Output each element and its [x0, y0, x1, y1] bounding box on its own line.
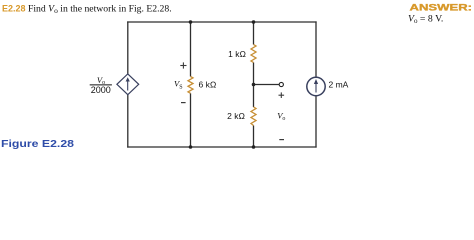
wire branch 2k lower [253, 126, 255, 148]
resistor 2k zigzag [251, 107, 256, 126]
label Vo output [277, 110, 285, 122]
fraction bar [90, 84, 112, 86]
plus VS [180, 62, 186, 68]
title text E2.28 [2, 3, 172, 15]
resistor 1k zigzag [251, 45, 256, 63]
minus Vo [279, 139, 284, 141]
wire branch 1k upper [253, 22, 255, 45]
svg-text:ANSWER:: ANSWER: [410, 2, 473, 12]
svg-text:Vo = 8 V.: Vo = 8 V. [408, 13, 443, 25]
wire top [127, 21, 316, 23]
svg-text:2 kΩ: 2 kΩ [227, 111, 245, 121]
svg-text:VS: VS [174, 79, 183, 91]
node top 6k branch [189, 20, 193, 24]
svg-text:1 kΩ: 1 kΩ [228, 49, 246, 59]
wire stub to terminal [254, 84, 280, 86]
label 6 kOhm [199, 80, 217, 90]
wire branch 6k upper [190, 22, 192, 77]
dependent source diamond [117, 74, 139, 95]
wire branch middle [253, 63, 255, 108]
svg-text:6 kΩ: 6 kΩ [199, 80, 217, 90]
wire left lower [127, 94, 129, 147]
label 2 mA [329, 80, 349, 90]
node bottom 2k branch [252, 145, 256, 149]
control label 2000 denominator [91, 85, 111, 95]
svg-text:2 mA: 2 mA [329, 80, 349, 90]
wire right upper [315, 21, 317, 77]
wire bottom [127, 146, 316, 148]
svg-text:Figure E2.28: Figure E2.28 [1, 138, 74, 150]
node bottom 6k branch [189, 145, 193, 149]
control label Vo/2000 numerator [97, 75, 105, 86]
node top 1k branch [252, 20, 256, 24]
svg-text:E2.28 Find Vo in the network i: E2.28 Find Vo in the network in Fig. E2.… [2, 3, 172, 15]
minus VS [181, 102, 186, 104]
terminal open circle [279, 82, 283, 86]
resistor 6k zigzag [188, 77, 193, 94]
svg-text:2000: 2000 [91, 85, 111, 95]
figure caption Figure E2.28 [1, 138, 74, 150]
wire branch 6k lower [190, 93, 192, 147]
svg-text:Vo: Vo [277, 110, 285, 122]
plus Vo [279, 92, 285, 98]
label 1 kOhm [228, 49, 246, 59]
answer heading [410, 2, 473, 12]
node mid junction [252, 83, 256, 87]
wire left upper [127, 21, 129, 74]
answer value Vo = 8 V [408, 13, 443, 25]
wire right lower [315, 96, 317, 148]
label 2 kOhm [227, 111, 245, 121]
current source 2mA circle [307, 77, 325, 95]
label VS [174, 79, 183, 91]
